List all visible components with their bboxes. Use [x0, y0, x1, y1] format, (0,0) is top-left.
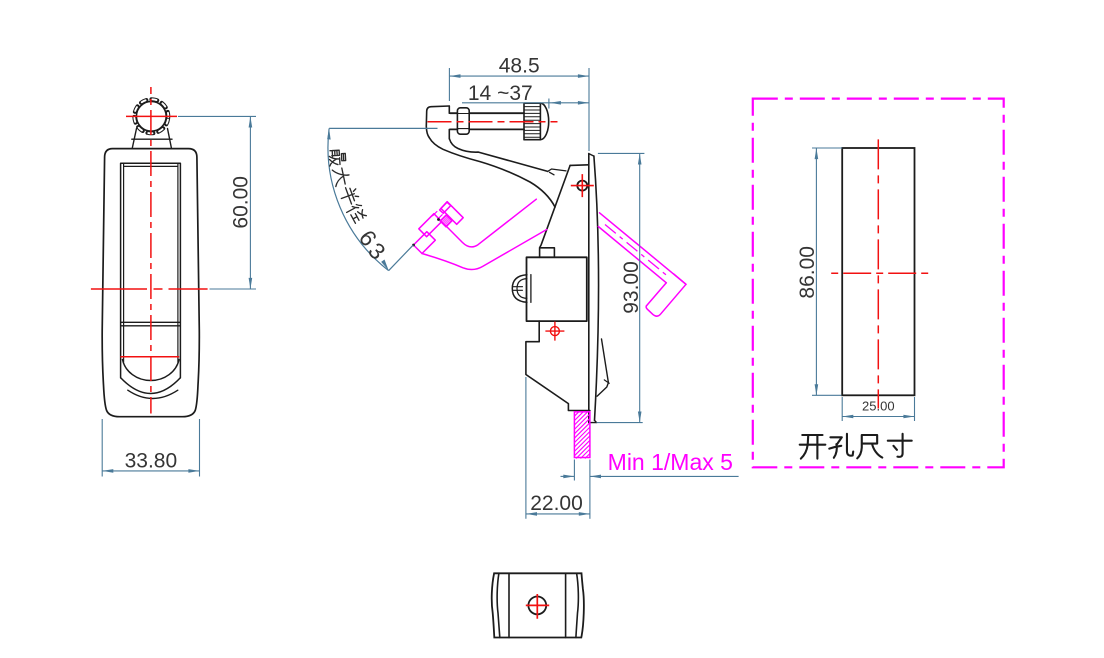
char 开: [800, 435, 826, 459]
svg-text:Min 1/Max 5: Min 1/Max 5: [608, 449, 733, 475]
latch pawl closed: [597, 339, 608, 396]
panel top cap: [589, 154, 594, 157]
dome tip extension tick: [548, 99, 550, 109]
magenta open pawl L-piece: [598, 213, 686, 316]
knurled knob: [524, 103, 540, 140]
flap outer edge: [121, 163, 181, 378]
dome cap: [540, 103, 548, 140]
dimension 33.80: [102, 419, 199, 477]
panel back curve: [594, 156, 599, 420]
crosshair lower red: [550, 327, 559, 336]
char 尺: [857, 435, 882, 458]
crosshair knob horizontal: [126, 115, 177, 117]
dimension 25.00: [842, 397, 914, 421]
svg-text:86.00: 86.00: [796, 246, 819, 299]
magenta bolt shaft stubs: [433, 212, 443, 219]
cutout centerline horizontal: [831, 272, 928, 274]
magenta hatched panel section: [574, 412, 590, 459]
char 半: [338, 185, 360, 207]
dimension 93.00: [597, 153, 645, 422]
arc bottom leader: [389, 245, 414, 271]
magenta dome end: [441, 202, 463, 225]
finger cup arc: [123, 360, 180, 381]
dimension Min 1/Max 5: [561, 460, 739, 481]
svg-text:22.00: 22.00: [530, 492, 583, 515]
bolt shaft: [450, 113, 524, 129]
crosshair pivot: [577, 181, 587, 191]
arc top arrow: [327, 128, 332, 139]
magenta grip diamond: [414, 232, 436, 254]
cutout rectangle: [842, 148, 914, 395]
svg-text:93.00: 93.00: [620, 261, 643, 314]
bottom view inner curves right: [576, 573, 578, 637]
body outer shell: [102, 149, 199, 417]
text 开孔尺寸: [800, 434, 912, 459]
handle arm outer edge: [429, 138, 555, 208]
junction dot B: [437, 218, 440, 221]
magenta handle band lower: [422, 230, 547, 270]
char 最: [329, 150, 346, 166]
panel bottom: [589, 420, 597, 422]
dimension 22.00: [526, 377, 590, 519]
panel dashed outline: [753, 99, 1004, 468]
flap bottom arc 2: [121, 378, 180, 394]
dimension 14~37: [462, 102, 589, 104]
char 寸: [888, 434, 912, 457]
arc top line: [329, 127, 437, 129]
handle arm inner edge: [449, 139, 547, 172]
knob teeth: [132, 97, 170, 135]
grip right edge: [448, 106, 450, 139]
arm tip step: [548, 169, 566, 175]
svg-text:14 ~37: 14 ~37: [468, 82, 533, 105]
bottom view inner curves left: [497, 573, 500, 637]
mechanism box: [527, 257, 587, 321]
screw head: [512, 275, 527, 303]
char 径: [345, 202, 367, 224]
magenta small rect: [440, 202, 451, 213]
crosshair flap horizontal: [120, 356, 179, 358]
magenta open handle curves: [414, 199, 547, 269]
svg-text:25.00: 25.00: [862, 399, 895, 414]
svg-text:48.5: 48.5: [499, 55, 540, 78]
dimension 60.00: [178, 116, 256, 289]
char 大: [332, 167, 350, 187]
flap inner edge: [124, 163, 178, 362]
hex nut: [457, 108, 469, 134]
body left edge: [540, 165, 571, 257]
magenta handle band upper: [442, 199, 537, 247]
magenta knurl: [440, 215, 452, 227]
flap bottom arc 3: [128, 390, 178, 398]
grip end of handle: [426, 106, 449, 138]
panel front face: [588, 154, 590, 423]
center hole: [528, 597, 546, 615]
bottom view crosshair: [526, 594, 549, 619]
bottom view outline: [492, 573, 584, 637]
arc bottom arrow: [380, 259, 390, 271]
knob neck: [132, 129, 172, 149]
crosshair latch horizontal: [91, 288, 208, 290]
body top edge: [570, 164, 589, 167]
dimension 86.00: [812, 148, 842, 395]
centerline vertical front view: [150, 87, 152, 414]
arc label 最大半径: [329, 150, 368, 225]
magenta nut diamond: [419, 214, 442, 237]
body lower profile: [526, 321, 590, 410]
swing arc: [328, 128, 389, 270]
svg-text:60.00: 60.00: [229, 176, 252, 229]
cutout centerline vertical: [877, 139, 879, 408]
char 孔: [829, 434, 853, 458]
dimension 48.5: [449, 68, 589, 151]
magenta pawl dashed centerline: [605, 225, 668, 277]
junction dot A: [412, 244, 415, 247]
svg-text:33.80: 33.80: [125, 450, 178, 473]
knob knurled circle: [136, 101, 166, 131]
flap mid double line: [121, 322, 181, 326]
red centerline bolt: [428, 121, 558, 123]
